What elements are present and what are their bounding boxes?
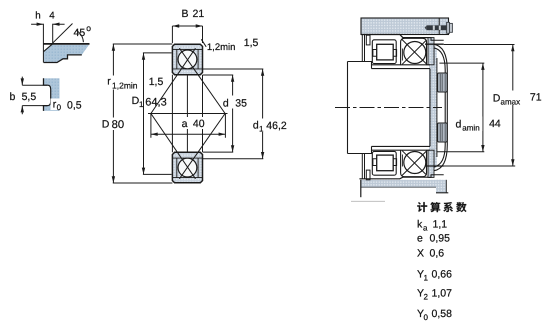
housing bore edge top [425,43,444,45]
label r0 0,5 [51,99,64,111]
ball bottom right view [404,152,426,174]
svg-text:46,2: 46,2 [266,120,287,132]
svg-text:0,5: 0,5 [67,99,82,111]
svg-text:71: 71 [530,92,542,104]
ring top border [172,44,202,74]
svg-text:40: 40 [193,118,205,130]
housing top block [361,18,449,35]
bearing top: outer ring top line [361,35,429,38]
svg-text:0: 0 [424,313,429,322]
chamfer detail profile [44,55,82,63]
bearing top: bottom line [372,64,431,66]
svg-text:0,58: 0,58 [432,308,453,320]
svg-text:B: B [182,8,189,20]
groove detail left edge [43,78,45,111]
pocket shoulder tick top [401,49,403,61]
housing bottom ghost edge [351,200,385,202]
svg-text:64,3: 64,3 [145,96,166,108]
bearing top: ball pocket [401,38,427,65]
svg-text:r: r [107,76,111,88]
pocket shoulder tick bottom [401,155,403,167]
chamfer detail blue section [44,45,89,63]
bearing top: left wall [362,35,364,62]
shaft right end [429,69,431,147]
damin extension bottom [437,151,485,153]
svg-text:4: 4 [49,10,55,21]
cap outer curve [434,44,447,170]
ball bottom [178,158,197,177]
svg-text:1,1: 1,1 [433,219,448,231]
wire bore center [186,75,188,153]
bearing top: cage outer [372,40,396,64]
svg-text:1,2min: 1,2min [112,80,138,90]
d1 dim arrows [261,69,264,159]
ball top right view [404,42,426,64]
svg-text:80: 80 [112,119,124,131]
label Damax 71 [492,91,542,107]
groove detail blue block [44,78,60,111]
bearing bottom: top line [372,149,431,151]
svg-text:e: e [417,233,423,245]
Damax extension top [444,44,515,46]
a dim arrows [151,133,226,136]
b dim extension lines [22,85,47,105]
shaft left face [347,62,349,154]
bearing bottom: hatch strip right [428,150,434,177]
chamfer corner diagonal [44,44,53,51]
d dim line [232,75,234,152]
housing step top right [429,38,444,41]
label d1 46,2 [252,119,287,134]
45 degree arc [77,31,84,43]
D dim line [112,44,114,183]
D dim arrows [112,44,115,183]
leader 1,2min [201,39,206,47]
d dim extensions [203,75,233,152]
bolt top shank [425,25,427,30]
svg-text:d: d [253,119,259,131]
flange bolt 2 [438,123,448,142]
svg-text:1,07: 1,07 [432,288,453,300]
h dim arrows [37,23,60,26]
bearing top: cage inner [377,44,394,60]
bearing top: tab [366,35,370,45]
b dim arrows [21,78,24,112]
wire horizontal centerline [148,113,228,115]
svg-text:amax: amax [501,98,521,107]
shaft shoulder [348,62,372,154]
svg-text:h: h [35,10,40,21]
chamfer detail surface line [43,43,89,45]
bearing top: side clips [373,50,397,57]
Damax arrows [511,45,514,167]
a dim line [151,133,226,135]
svg-text:amin: amin [462,124,479,133]
flange column hatched [429,46,437,168]
cap inner curve [434,48,445,167]
inner ring bottom section [172,152,202,183]
D dim extensions [113,44,173,183]
bearing bottom: ball pocket [401,150,427,177]
table header 计算系数 (vector glyphs) [417,202,466,212]
housing bottom flange foot [436,180,446,193]
a dim vertical extensions [151,114,226,138]
label a 40 [181,117,206,130]
housing left wall bottom [360,180,362,197]
svg-text:1,2min: 1,2min [207,42,236,53]
label D 80 [101,118,127,131]
label r 1,2min left [106,76,142,91]
h dimension line [31,23,65,25]
ball top [178,50,197,69]
svg-text:o: o [86,23,91,33]
bolt top washer [447,22,450,33]
wire bore left [171,75,173,153]
damin arrows [481,63,484,152]
svg-text:2: 2 [424,293,429,302]
D1 dim line [143,53,145,174]
B dim arrows [172,24,202,27]
contact line B [151,48,196,179]
svg-text:1,5: 1,5 [244,37,259,49]
contact line A [179,48,225,179]
label d 35 [222,96,247,110]
svg-text:44: 44 [489,118,501,130]
svg-text:45: 45 [74,27,86,39]
svg-text:1: 1 [424,274,429,283]
svg-text:1: 1 [259,124,264,133]
Damax extension bottom [432,165,515,167]
label D1 64,3 [132,95,167,109]
svg-text:b: b [10,91,16,103]
svg-text:5,5: 5,5 [22,91,37,103]
svg-text:D: D [493,93,501,105]
b dim arrow lines [21,77,23,115]
flange bolt 1 [438,73,448,92]
flange right edge [436,58,438,157]
cap white region [434,44,447,171]
svg-text:1: 1 [139,100,144,109]
D1 dim arrows [142,53,145,174]
bearing bottom: left wall [362,154,364,179]
bearing bottom: cage inner [377,155,394,171]
d1 dim extensions [203,69,263,159]
centerline [335,107,442,109]
d1 dim line [262,69,264,159]
housing vertical edge [438,18,440,35]
ball bottom X [402,151,427,176]
h dimension extension lines [43,24,52,63]
Damax dim line [512,45,514,167]
bearing bottom: side clips [373,159,397,166]
bearing bottom: cage outer [372,151,396,175]
svg-text:0: 0 [57,103,62,112]
damin dim line [482,63,484,152]
ball top X [402,40,427,65]
B dim extension lines [172,26,202,43]
groove notch [43,85,51,105]
bearing bottom: tab [366,170,370,180]
housing bottom block [361,180,442,187]
svg-text:D: D [102,119,110,131]
svg-text:d: d [456,119,462,131]
svg-text:a: a [423,224,428,233]
wire bore right [202,75,204,153]
svg-text:0,6: 0,6 [430,248,445,260]
svg-text:0,95: 0,95 [430,233,451,245]
svg-text:d: d [223,97,229,109]
svg-text:0,66: 0,66 [432,269,453,281]
housing bore edge bottom [425,165,444,167]
housing step bottom right [429,175,444,178]
svg-text:35: 35 [235,97,247,109]
svg-text:X: X [417,248,424,260]
outer ring top section [172,44,202,74]
45 degree line [52,24,73,44]
label damin 44 [455,117,501,133]
svg-text:21: 21 [193,8,205,20]
svg-text:1,5: 1,5 [149,76,164,88]
ring bottom border [172,152,202,183]
bearing bottom: outer ring bottom line [359,177,430,179]
shaft seat lines [372,69,431,147]
bolt top head [450,23,453,32]
bearing top: hatch strip right [428,38,434,65]
damin extension top [439,62,484,64]
svg-text:a: a [182,118,188,130]
D1 dim extensions [143,53,172,174]
d dim arrows [231,75,234,152]
B dim line [172,25,202,27]
